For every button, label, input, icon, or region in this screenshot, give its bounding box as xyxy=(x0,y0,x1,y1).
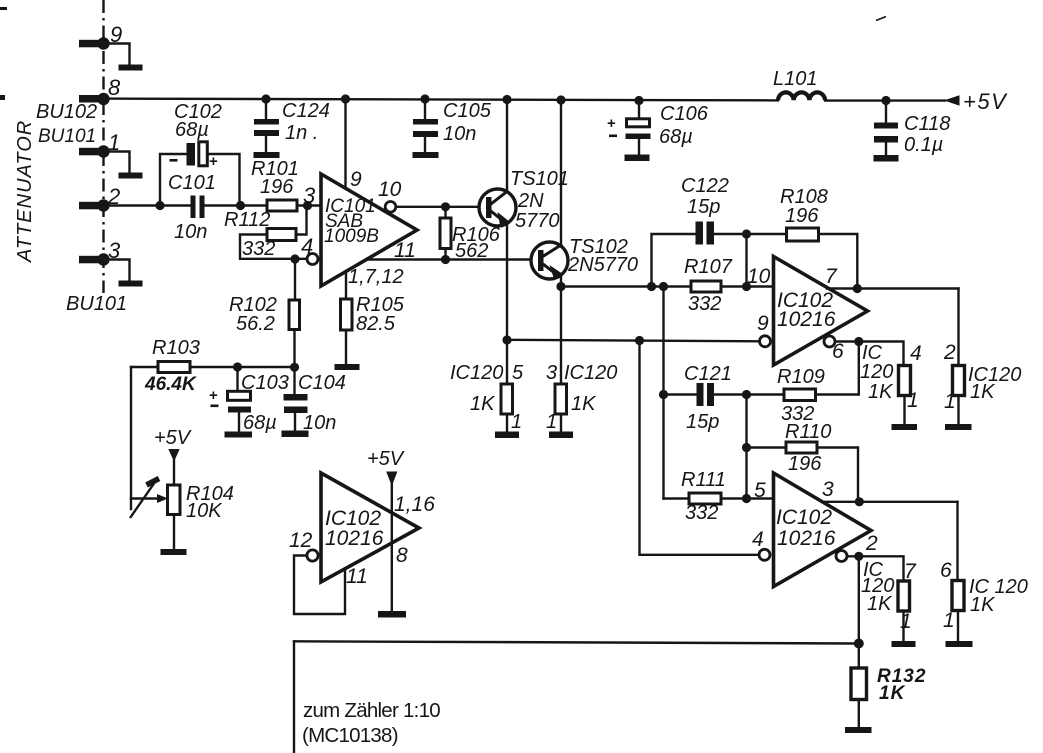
svg-text:9: 9 xyxy=(110,22,122,47)
wire pin6 to IC120 pin4 resistor xyxy=(835,342,904,367)
node input loop right xyxy=(236,201,245,210)
svg-text:1K: 1K xyxy=(868,381,894,403)
svg-text:C118: C118 xyxy=(904,113,950,135)
svg-text:8: 8 xyxy=(396,544,408,567)
svg-text:1: 1 xyxy=(108,130,120,155)
svg-text:196: 196 xyxy=(788,453,822,475)
supply arrow buffer xyxy=(386,472,397,487)
node R110 left xyxy=(742,443,751,452)
svg-text:BU101: BU101 xyxy=(38,126,96,147)
resistor R132 1K xyxy=(851,644,926,728)
line receiver IC102 10216 stage1 xyxy=(774,257,868,366)
resistor R108 xyxy=(747,186,858,289)
wire pin9 pin4 bias column xyxy=(640,341,759,555)
svg-text:1K: 1K xyxy=(970,381,996,403)
resistor R102 xyxy=(229,259,300,368)
capacitor C118 xyxy=(874,101,951,162)
svg-text:R103: R103 xyxy=(152,337,200,359)
inverted output circle pin 10 xyxy=(385,202,396,213)
wire TS102 emitter node down to IC120 pin3 resistor xyxy=(560,287,562,385)
svg-text:3: 3 xyxy=(546,362,557,384)
svg-text:R109: R109 xyxy=(777,366,825,388)
node C122 right xyxy=(742,229,751,238)
wire +5V top rail right part xyxy=(825,99,945,101)
ground IC120 pin6 resistor xyxy=(946,641,973,647)
capacitor C101 xyxy=(168,172,216,243)
svg-text:0.1µ: 0.1µ xyxy=(904,134,943,156)
svg-text:+: + xyxy=(209,153,218,170)
inverting input circle pin 4 xyxy=(307,254,318,265)
capacitor C103 electrolytic xyxy=(209,367,289,434)
ground IC120 pin2 resistor xyxy=(945,424,972,430)
svg-text:ATTENUATOR: ATTENUATOR xyxy=(14,120,36,263)
svg-text:C121: C121 xyxy=(684,363,732,385)
wire pin10 output to TS101 base xyxy=(396,206,480,208)
transistor TS102 2N5770 xyxy=(531,236,638,281)
svg-text:L101: L101 xyxy=(773,68,818,90)
svg-text:11: 11 xyxy=(346,565,368,588)
svg-text:5: 5 xyxy=(754,479,766,502)
capacitor C124 xyxy=(254,99,330,158)
svg-text:2N: 2N xyxy=(517,190,544,212)
wire IC101 pin9 supply from rail xyxy=(344,99,346,186)
svg-text:68µ: 68µ xyxy=(659,126,693,148)
node pin4 IC101 xyxy=(290,254,299,263)
ground R132 xyxy=(845,727,872,733)
resistor IC120 pin4 1K xyxy=(860,342,922,424)
wire output line to counter xyxy=(294,641,859,643)
svg-text:1: 1 xyxy=(943,609,955,632)
svg-text:1n .: 1n . xyxy=(285,122,318,144)
node rail-C118 xyxy=(881,96,890,105)
wire +5V top rail left part xyxy=(104,99,779,101)
node R106 bottom xyxy=(441,255,450,264)
wire pin2 to IC120 pin7 resistor xyxy=(847,556,904,581)
svg-text:1009B: 1009B xyxy=(324,226,379,247)
node output to counter xyxy=(854,639,864,649)
buffer IC102 10216 output stage xyxy=(321,473,419,582)
capacitor C105 xyxy=(413,99,492,158)
svg-text:82.5: 82.5 xyxy=(356,313,396,335)
svg-text:2: 2 xyxy=(865,532,878,555)
inverting input circle pin 12 buffer xyxy=(307,550,318,561)
svg-text:1K: 1K xyxy=(867,593,893,615)
svg-text:C104: C104 xyxy=(298,372,346,394)
svg-text:C124: C124 xyxy=(282,100,330,122)
+5V supply arrow terminal xyxy=(944,95,960,105)
wire pin3 output stage2 xyxy=(822,501,958,503)
node rail-C124 xyxy=(261,94,270,103)
svg-text:10n: 10n xyxy=(443,123,476,145)
resistor IC120 pin6 1K xyxy=(940,559,1028,641)
node pin10 input xyxy=(742,282,751,291)
svg-text:10: 10 xyxy=(378,178,402,201)
svg-text:R111: R111 xyxy=(681,469,726,491)
ground IC120 pin4 resistor xyxy=(892,424,918,430)
svg-text:332: 332 xyxy=(685,502,718,524)
svg-text:562: 562 xyxy=(455,240,488,262)
wire buffer supply pin1,16 to ground pin8 xyxy=(391,484,393,611)
capacitor C104 xyxy=(284,367,346,434)
ground IC120 pin7 resistor xyxy=(892,641,916,647)
svg-text:+5V: +5V xyxy=(963,89,1008,114)
resistor IC120 pin5 1K xyxy=(450,340,524,433)
potentiometer R104 10K xyxy=(130,427,234,549)
svg-text:1K: 1K xyxy=(879,683,906,704)
svg-text:2N5770: 2N5770 xyxy=(567,254,638,276)
node C104 top xyxy=(290,363,299,372)
svg-text:C105: C105 xyxy=(443,100,492,122)
node pin5 input xyxy=(742,494,751,503)
node C121 branch left xyxy=(659,282,668,291)
wire pin7 down to IC120 pin2 resistor xyxy=(957,289,959,367)
svg-text:1: 1 xyxy=(900,610,912,633)
svg-text:196: 196 xyxy=(785,205,819,227)
node pin6 to R109 xyxy=(854,337,863,346)
svg-text:9: 9 xyxy=(757,312,769,335)
node rail-C105 xyxy=(420,94,429,103)
ground R105 xyxy=(335,364,360,370)
svg-text:332: 332 xyxy=(688,293,721,315)
svg-text:3: 3 xyxy=(822,478,834,501)
node C103 top xyxy=(233,362,242,371)
svg-text:R112: R112 xyxy=(224,209,270,231)
svg-text:IC120: IC120 xyxy=(450,362,503,384)
capacitor C121 15p xyxy=(664,363,747,433)
svg-text:10n: 10n xyxy=(174,221,207,243)
svg-text:5: 5 xyxy=(512,362,524,384)
scan scratch mark top right xyxy=(876,17,886,21)
wire pin2 node down to output line xyxy=(858,556,860,643)
inverted output circle pin 2 stage2 xyxy=(836,551,847,562)
svg-text:IC102: IC102 xyxy=(776,506,832,529)
wire chassis dash-dot line BU connectors xyxy=(102,0,104,293)
svg-text:196: 196 xyxy=(260,176,294,198)
node bias to pin4 branch xyxy=(635,336,644,345)
node C121 right xyxy=(742,390,751,399)
node pin2 output xyxy=(854,552,863,561)
wire output box to counter vertical xyxy=(293,642,295,753)
svg-text:BU102: BU102 xyxy=(36,101,97,123)
wire C101 right to R101 xyxy=(205,204,267,206)
svg-text:4: 4 xyxy=(752,528,764,551)
resistor R110 xyxy=(747,421,859,502)
capacitor C106 electrolytic xyxy=(607,100,709,161)
svg-text:10: 10 xyxy=(747,265,771,288)
resistor R105 xyxy=(341,271,405,364)
svg-text:46.4K: 46.4K xyxy=(144,374,197,395)
wire pin11 output to TS102 base xyxy=(366,258,531,260)
node pin3 feedback xyxy=(855,497,864,506)
svg-text:11: 11 xyxy=(394,239,416,262)
svg-text:1: 1 xyxy=(511,411,522,433)
svg-text:5770: 5770 xyxy=(515,210,560,232)
wire R103 left down to R104 wiper xyxy=(130,367,132,509)
transistor TS101 2N5770 xyxy=(479,168,569,232)
node rail-TS102 xyxy=(556,95,565,104)
svg-text:7: 7 xyxy=(825,265,838,288)
svg-text:R110: R110 xyxy=(785,421,831,443)
svg-text:6: 6 xyxy=(940,559,952,582)
inverting input circle pin 4 stage2 xyxy=(759,549,770,560)
svg-text:1,7,12: 1,7,12 xyxy=(348,266,404,288)
svg-text:68µ: 68µ xyxy=(175,119,209,141)
node TS101 emitter bias xyxy=(502,335,511,344)
svg-text:1K: 1K xyxy=(970,594,996,616)
svg-text:zum Zähler 1:10: zum Zähler 1:10 xyxy=(303,699,440,722)
ground C103 xyxy=(225,432,253,438)
wire C122 node down to pin10 line xyxy=(745,234,747,287)
node TS102 emitter xyxy=(556,282,565,291)
node C122 branch left xyxy=(647,282,656,291)
node rail-IC101 xyxy=(341,94,350,103)
svg-text:BU101: BU101 xyxy=(66,293,127,315)
capacitor C102 electrolytic xyxy=(170,101,222,170)
ground R104 xyxy=(161,549,187,555)
svg-text:120: 120 xyxy=(860,361,893,383)
node input loop left xyxy=(155,201,164,210)
svg-text:12: 12 xyxy=(289,529,313,552)
svg-text:+5V: +5V xyxy=(367,448,405,470)
connector pin 3 BU101 xyxy=(79,238,143,287)
wire input line pin2 to C101 xyxy=(104,204,191,206)
connector pin 2 BU101 xyxy=(79,184,120,212)
svg-text:1K: 1K xyxy=(470,393,496,415)
svg-text:+5V: +5V xyxy=(154,427,192,449)
svg-text:IC120: IC120 xyxy=(564,362,617,384)
node pin7 feedback xyxy=(853,284,862,293)
svg-text:1,16: 1,16 xyxy=(394,493,435,516)
svg-text:1: 1 xyxy=(546,411,557,433)
wire pin5 node column xyxy=(745,395,747,499)
wire pin4 circle to triangle xyxy=(318,258,322,260)
node rail-TS101 xyxy=(502,95,511,104)
svg-text:56.2: 56.2 xyxy=(236,313,275,335)
op-amp IC101 SAB1009B xyxy=(321,174,417,286)
wire TS101 collector to rail xyxy=(506,100,508,192)
line receiver IC102 10216 stage2 xyxy=(774,473,872,587)
svg-text:+: + xyxy=(209,387,218,404)
resistor R106 xyxy=(440,207,501,262)
svg-text:2: 2 xyxy=(943,341,956,364)
node R106 top xyxy=(441,202,450,211)
ground IC120 pin3 resistor xyxy=(549,432,573,439)
svg-text:10216: 10216 xyxy=(777,308,836,331)
resistor R111 xyxy=(664,469,774,524)
svg-text:9: 9 xyxy=(350,168,362,191)
svg-text:1K: 1K xyxy=(571,393,597,415)
resistor R101 xyxy=(251,158,321,211)
svg-text:10K: 10K xyxy=(186,500,223,522)
wire TS102 emitter to node xyxy=(560,276,562,287)
connector pin 9 BU102 xyxy=(79,22,143,71)
svg-text:7: 7 xyxy=(904,560,917,583)
inductor L101 xyxy=(778,92,825,100)
ground IC120 pin5 resistor xyxy=(495,432,519,439)
resistor R103 xyxy=(131,337,295,395)
node rail-C106 xyxy=(634,96,643,105)
svg-text:15p: 15p xyxy=(686,411,719,433)
inverting input circle pin 9 stage1 xyxy=(760,336,771,347)
svg-text:4: 4 xyxy=(910,342,922,365)
svg-text:R107: R107 xyxy=(684,256,733,278)
scan mark left edge xyxy=(0,95,5,100)
svg-text:1: 1 xyxy=(944,390,956,413)
wire TS102 emitter node to R107 xyxy=(561,285,691,287)
resistor IC120 pin7 1K xyxy=(861,559,917,641)
svg-text:C122: C122 xyxy=(681,175,729,197)
wire bias line TS101 emitter to pin9 xyxy=(507,340,760,342)
svg-text:15p: 15p xyxy=(687,196,720,218)
wire TS102 node down to C121 and R111 xyxy=(662,287,664,499)
wire TS102 collector to rail xyxy=(560,100,562,245)
node pin3 IC101 xyxy=(303,201,312,210)
wire feedback pin11 to pin12 buffer xyxy=(294,556,345,615)
resistor R112 xyxy=(224,206,307,261)
node C121 left xyxy=(659,390,668,399)
ground C104 xyxy=(282,431,309,438)
capacitor C122 15p xyxy=(652,175,747,287)
wire pin7 output stage1 xyxy=(827,287,959,289)
resistor R107 xyxy=(684,256,774,315)
svg-text:C103: C103 xyxy=(241,372,289,394)
svg-text:+: + xyxy=(607,115,616,132)
resistor R109 xyxy=(747,342,859,426)
inverted output circle pin 6 stage1 xyxy=(824,336,835,347)
svg-text:C101: C101 xyxy=(168,172,216,194)
svg-text:332: 332 xyxy=(242,238,275,260)
ground buffer pin8 xyxy=(378,611,406,618)
svg-text:C106: C106 xyxy=(660,103,709,125)
svg-text:(MC10138): (MC10138) xyxy=(302,724,398,747)
svg-text:68µ: 68µ xyxy=(243,412,277,434)
connector pin 8 BU102 xyxy=(79,75,121,105)
wire C102 bypass loop xyxy=(160,154,240,206)
svg-text:10216: 10216 xyxy=(777,527,836,550)
svg-text:10216: 10216 xyxy=(325,527,384,550)
resistor IC120 pin2 1K xyxy=(943,341,1021,424)
wire pin3 down to IC120 pin6 resistor xyxy=(956,502,958,581)
wire TS101 emitter down xyxy=(506,224,508,341)
svg-text:8: 8 xyxy=(108,75,121,100)
svg-text:1: 1 xyxy=(907,389,919,412)
resistor IC120 pin3 1K xyxy=(546,362,617,433)
svg-text:3: 3 xyxy=(108,238,121,263)
svg-text:3: 3 xyxy=(303,183,316,208)
connector pin 1 BU101 xyxy=(79,130,143,179)
